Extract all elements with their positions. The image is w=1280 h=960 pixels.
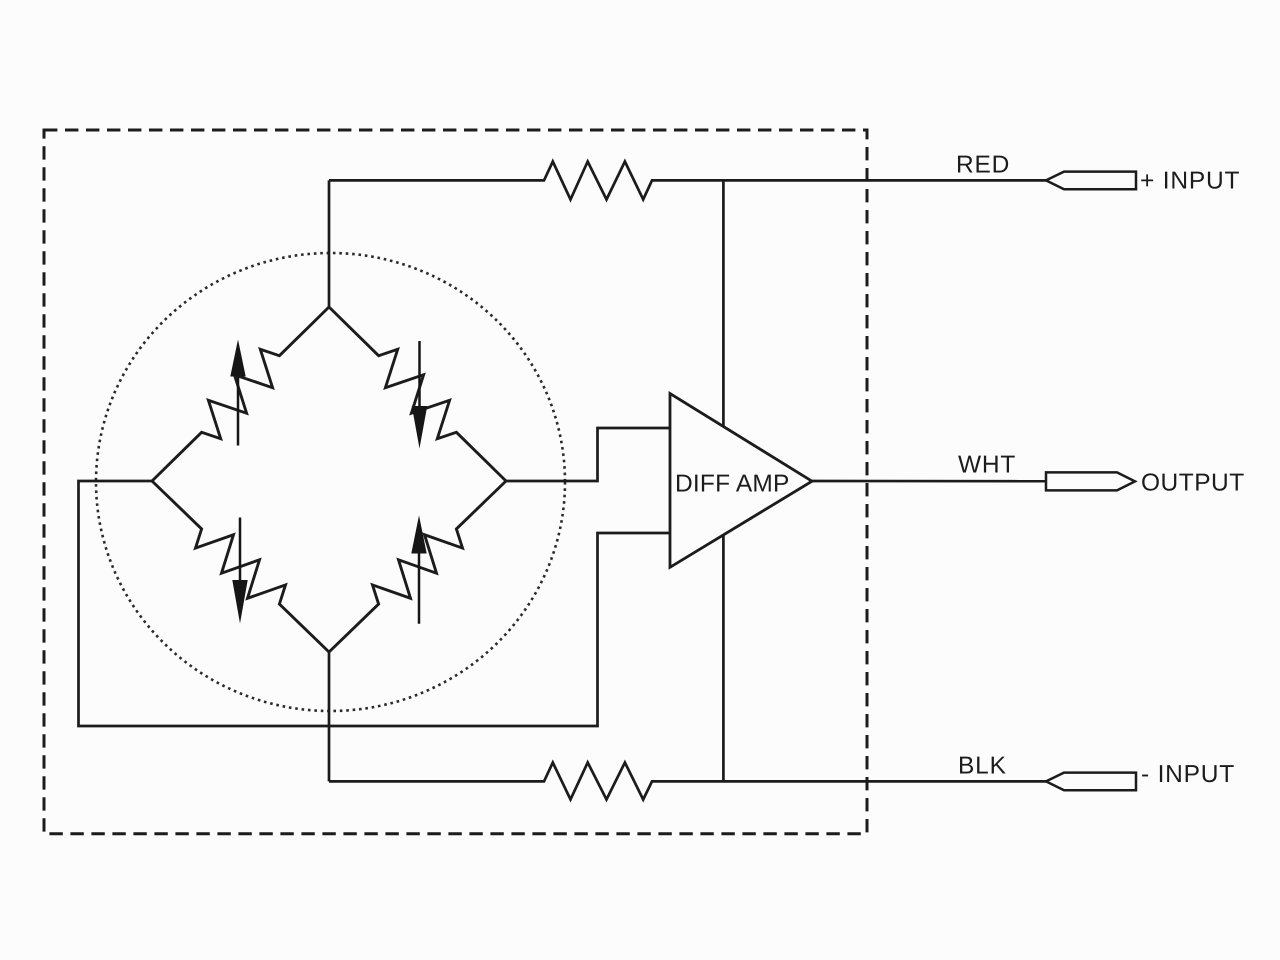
svg-text:DIFF AMP: DIFF AMP [675,470,790,497]
svg-text:- INPUT: - INPUT [1141,761,1235,788]
svg-text:RED: RED [956,152,1010,179]
svg-text:+ INPUT: + INPUT [1140,168,1240,195]
svg-text:OUTPUT: OUTPUT [1141,470,1245,497]
svg-text:BLK: BLK [958,753,1007,780]
svg-text:WHT: WHT [958,452,1016,479]
